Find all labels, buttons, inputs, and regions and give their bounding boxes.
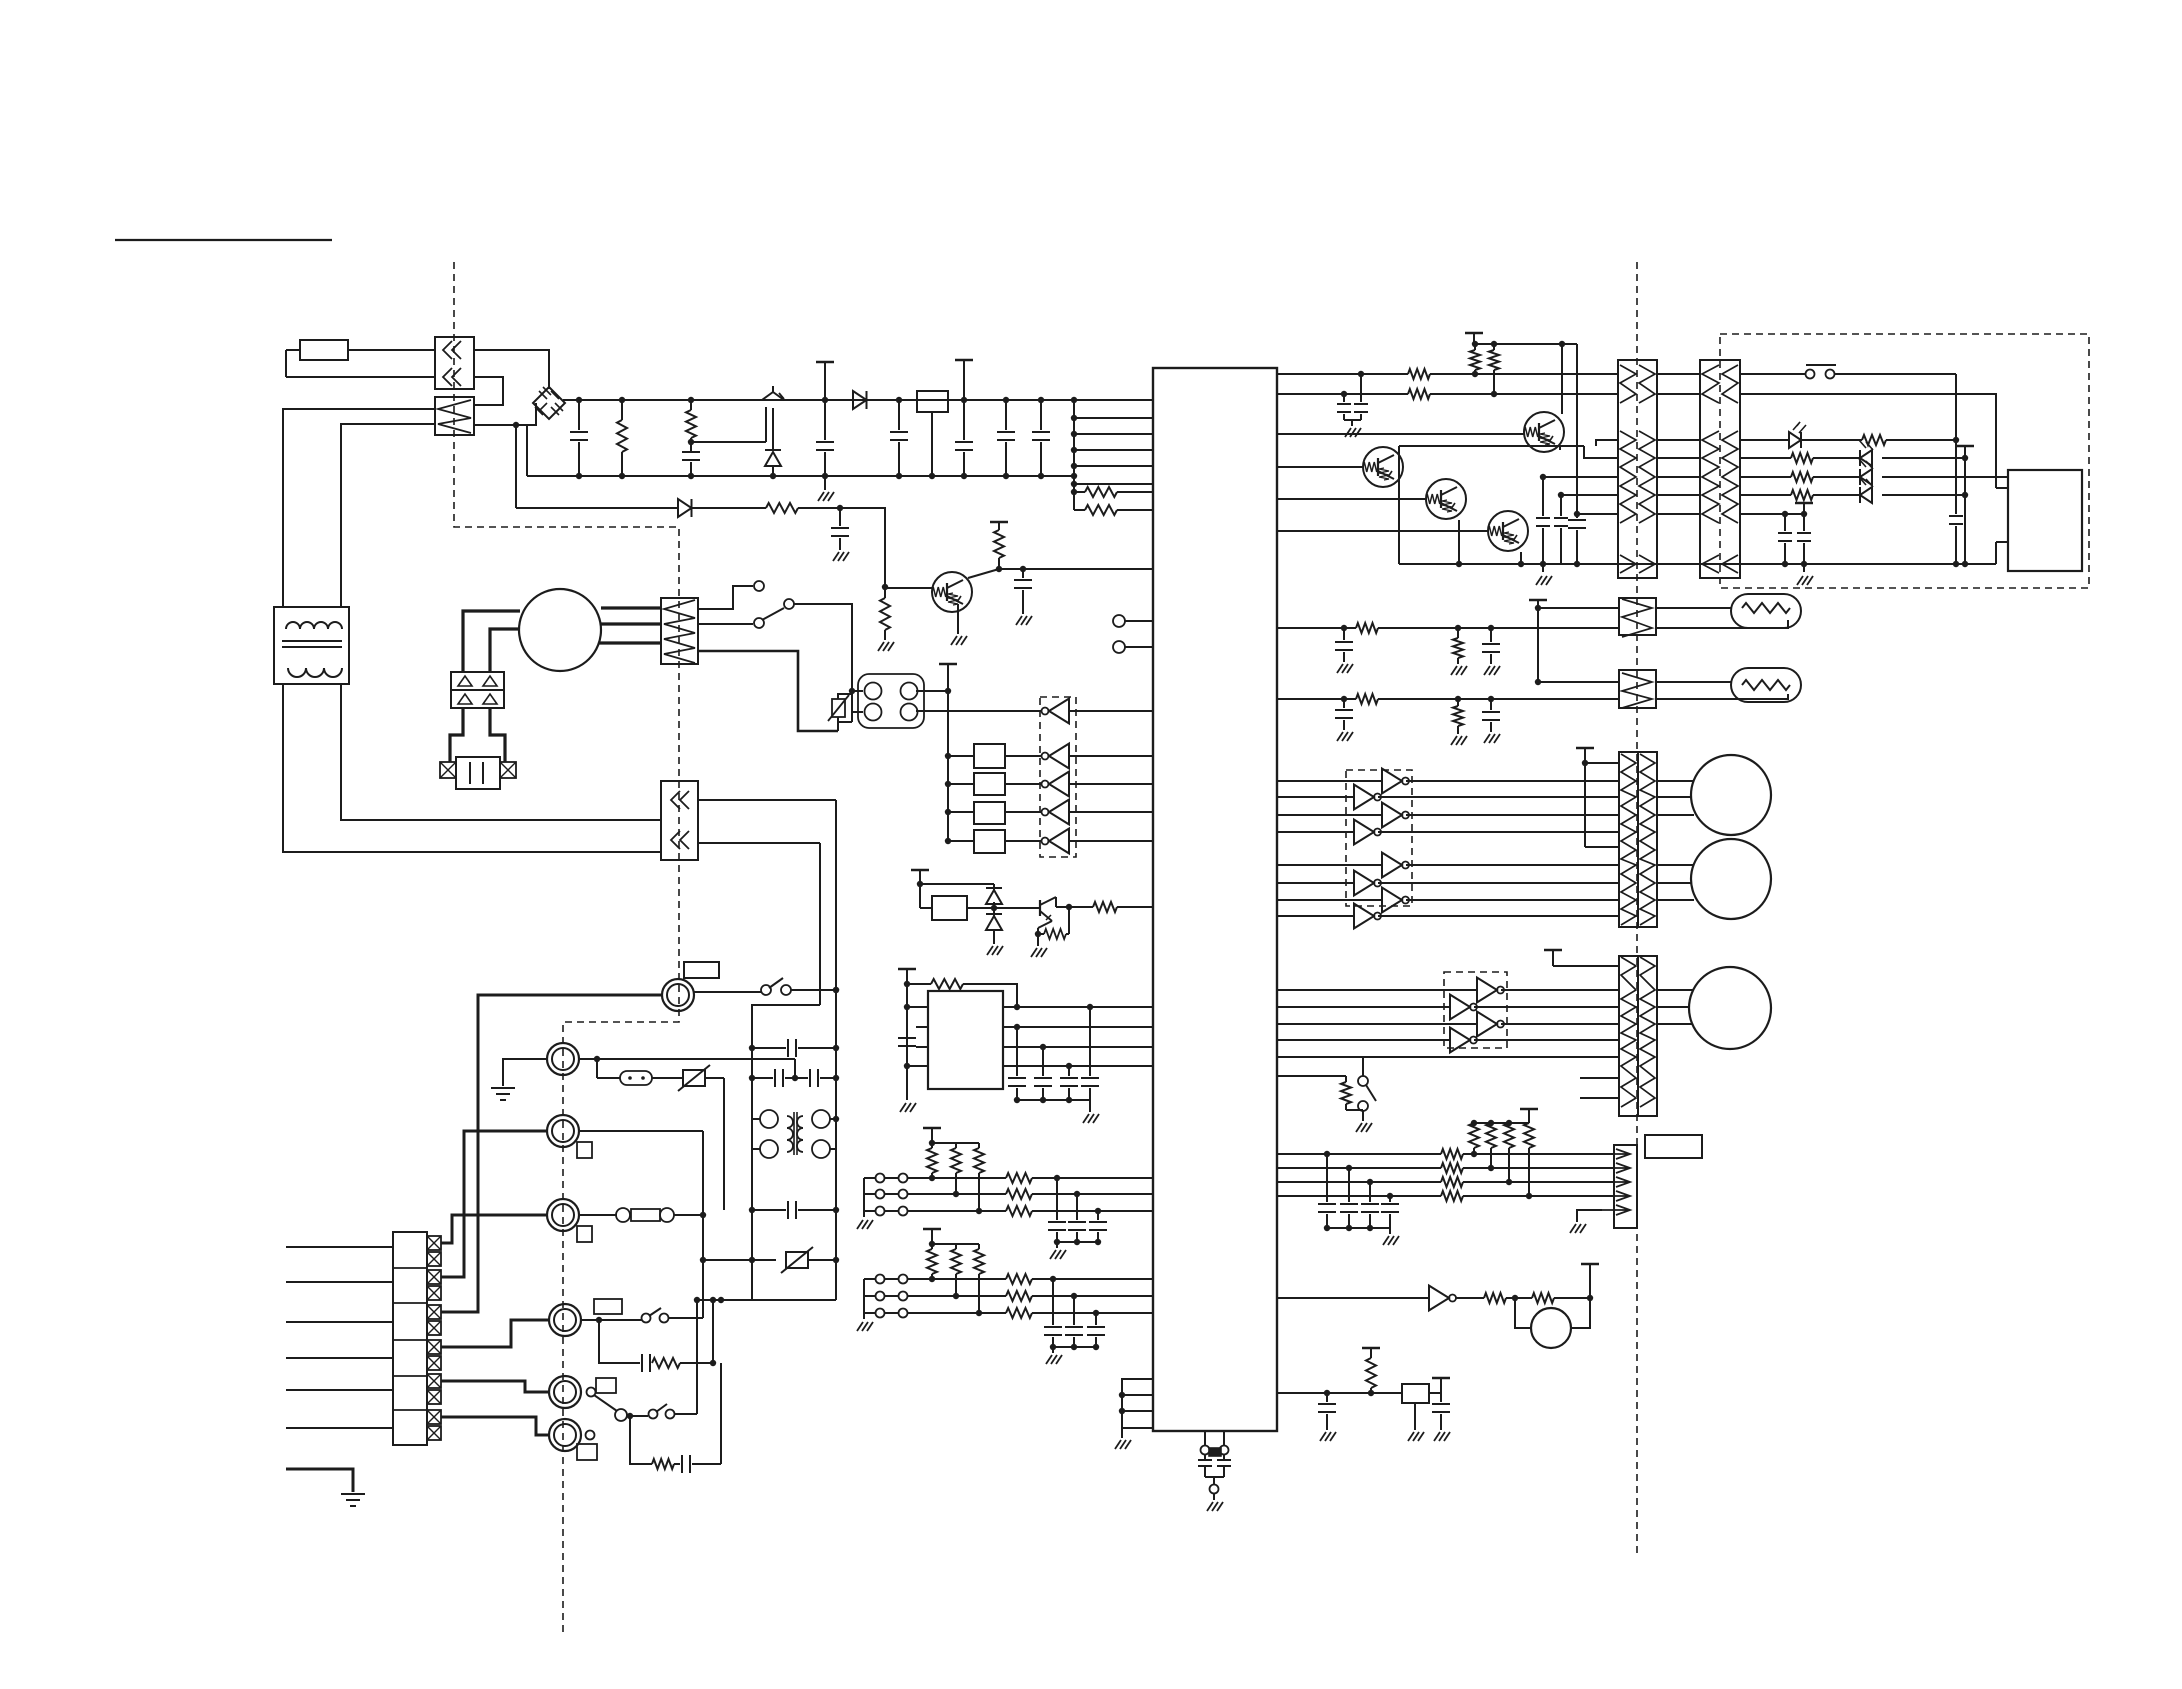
wire [341, 424, 435, 607]
capacitor C24 [1482, 628, 1500, 675]
wire [579, 1056, 795, 1062]
front panel dashed box [1720, 334, 2089, 588]
wire [1561, 494, 1618, 496]
wire [1014, 1097, 1090, 1103]
wire [579, 1130, 703, 1132]
wire stub [1580, 1077, 1619, 1079]
capacitor C25 [1335, 699, 1353, 741]
resistor R23 [1277, 1076, 1351, 1104]
wire [599, 641, 661, 644]
wire [450, 708, 463, 762]
wire [1618, 563, 1996, 565]
switch S3 [1358, 1076, 1376, 1111]
wire [696, 1300, 698, 1414]
connector CN4 [661, 598, 698, 664]
resistor R31 [1441, 1191, 1614, 1201]
connector pins J3b [1113, 641, 1153, 653]
resistor R20 [1451, 628, 1467, 675]
bridge rectifier D5 [451, 672, 504, 708]
transistor Q1 [1277, 412, 1564, 452]
wire [1570, 1210, 1602, 1233]
wire to IC pin [1071, 415, 1153, 421]
jack J7 [547, 1199, 592, 1242]
wire [1657, 1006, 1689, 1008]
LED D8 [1740, 422, 1862, 448]
connector CN5 [1618, 360, 1657, 578]
switch S4 [694, 978, 839, 995]
ground [1031, 934, 1047, 957]
inverter U5c [1277, 1012, 1619, 1037]
filter X1 [945, 744, 1005, 768]
wire [1277, 696, 1356, 702]
transistor Q6 [994, 897, 1069, 921]
resistor R34 [1362, 1348, 1380, 1393]
wire [601, 606, 661, 609]
diode D3 [853, 391, 867, 409]
wire [1657, 457, 1700, 459]
input lines [286, 1247, 393, 1428]
motor M2 [1691, 755, 1771, 835]
transistor Q4 [1277, 511, 1528, 551]
ground [1408, 1403, 1424, 1441]
wire [1559, 341, 1565, 414]
wire [1003, 1004, 1153, 1010]
wire [1277, 1390, 1402, 1396]
diode D6 [986, 884, 1002, 908]
inverter U4g [1277, 888, 1619, 913]
resistor R1 [617, 397, 627, 479]
wire [1346, 1104, 1372, 1132]
wire [1657, 439, 1700, 441]
capacitor C29 [1361, 1182, 1379, 1231]
varistor RV3 [828, 691, 863, 722]
switch S1 [698, 581, 794, 628]
wire [1035, 921, 1052, 937]
wire [792, 1059, 798, 1081]
resistor R2 [686, 397, 696, 448]
filter X3 [945, 802, 1005, 824]
connector CN3 [661, 781, 698, 860]
resistor R5 [692, 503, 843, 513]
resistor R8 [1038, 929, 1069, 939]
inverter U4h [1277, 904, 1619, 929]
capacitor C13 [1034, 1047, 1052, 1100]
wire [1398, 453, 1400, 564]
ground [1383, 1228, 1399, 1245]
filter X4 [945, 830, 1005, 853]
transistor Q5 [885, 572, 972, 612]
neon lamp NE1 [597, 1059, 652, 1085]
pass transistor Q7 [762, 386, 784, 400]
motor M1 [519, 589, 601, 671]
wire to IC pin [1071, 481, 1153, 487]
capacitor C8 [831, 508, 849, 561]
resistor R28 [1441, 1149, 1614, 1159]
resistor R33 [1506, 1293, 1593, 1303]
label box [1645, 1135, 1702, 1158]
resistor R11 [1470, 344, 1480, 377]
supply T [1581, 1264, 1599, 1298]
lamp LP2 [1656, 668, 1801, 702]
resistor R10 [907, 979, 1020, 1010]
wire [1003, 1024, 1153, 1030]
wire [700, 1131, 706, 1318]
resistor R15 [1862, 435, 1956, 445]
wire [833, 800, 839, 1300]
resistor R16 [1740, 453, 1860, 463]
wire stub [916, 1046, 928, 1048]
wire [1553, 965, 1619, 967]
wire [698, 651, 838, 731]
capacitor C22 [1797, 514, 1811, 567]
wire [1657, 882, 1691, 884]
connector CN10 [1619, 956, 1657, 1116]
wire [1560, 446, 1618, 458]
inverter U2c [1005, 772, 1153, 797]
wire [794, 604, 855, 694]
connector CN8 [1619, 670, 1656, 708]
wire [1535, 605, 1619, 611]
resistor R18 [1740, 490, 1860, 500]
capacitor C20 [1568, 512, 1586, 564]
capacitor C3 [816, 362, 834, 501]
servo IC3 [928, 991, 1003, 1089]
switch S6 [587, 1388, 634, 1422]
wire [1740, 513, 1804, 515]
wire [341, 684, 661, 820]
wire [698, 799, 836, 801]
wire [515, 425, 517, 508]
wire [1277, 371, 1408, 377]
ground [1797, 564, 1813, 585]
inverter bank box 2 [1444, 972, 1507, 1048]
capacitor C10 motor-start [440, 757, 516, 789]
diode D4 [516, 499, 692, 517]
supply T [1956, 446, 1974, 458]
ground [1344, 420, 1361, 437]
resistor R30 [1441, 1177, 1614, 1187]
power switch S2 [1740, 365, 1956, 379]
wire [474, 403, 536, 428]
wire [1003, 1044, 1153, 1050]
key matrix SW1-SW3 [857, 1128, 1153, 1259]
wire [441, 1417, 549, 1435]
wire [1657, 989, 1693, 991]
wire [1657, 899, 1694, 901]
capacitor C38 [752, 1201, 836, 1219]
inverter U5b [1277, 995, 1619, 1020]
wire [1399, 446, 1560, 453]
resistor R4 [1074, 505, 1153, 515]
switch S5 [581, 1308, 703, 1323]
wire [720, 1363, 722, 1464]
resistor R19 [1356, 623, 1619, 633]
reset IC4 [1402, 1384, 1429, 1403]
inverter U4f [1277, 871, 1619, 896]
wire [723, 1078, 725, 1210]
wire [1327, 1227, 1390, 1229]
capacitor C9 [1014, 566, 1032, 625]
inverter U2d [1005, 800, 1153, 825]
wire [749, 1005, 820, 1300]
resistor R7 [990, 522, 1008, 572]
selector switch bank SW7 [393, 1232, 441, 1445]
capacitor C5 [955, 360, 973, 479]
wire [1657, 476, 1700, 478]
wire [1657, 780, 1694, 782]
inverter U4a [1277, 769, 1619, 794]
wire stub [1996, 541, 2008, 543]
wire [1277, 1165, 1441, 1171]
capacitor C1 [570, 397, 588, 479]
transistor Q3 [1277, 479, 1466, 519]
wire [819, 843, 821, 1005]
wire [1535, 679, 1619, 685]
capacitor C14 [1060, 1066, 1078, 1100]
inverter U5a [1277, 978, 1619, 1003]
capacitor C16 [1337, 394, 1351, 420]
resistor R26 [1504, 1123, 1514, 1185]
ground lead [286, 1469, 365, 1506]
jack J6 [547, 1115, 592, 1158]
photocoupler PC1 [858, 674, 924, 728]
resistor R27 [1524, 1123, 1534, 1199]
wire [283, 684, 661, 852]
LED D11 [1859, 477, 1968, 503]
wire supply stub [911, 870, 929, 908]
ground [1083, 1100, 1099, 1123]
wire [698, 842, 820, 844]
resistor R24 [1469, 1123, 1479, 1157]
resistor R3 [1071, 487, 1153, 497]
capacitor C18 [1536, 474, 1550, 564]
connector CN1 [435, 337, 474, 389]
wire stub [916, 1026, 928, 1028]
inverter U5d [1277, 1028, 1619, 1053]
fuse F2 [579, 1208, 703, 1222]
capacitor C31 [1318, 1393, 1336, 1441]
wire [1520, 552, 1522, 564]
wire [286, 350, 435, 377]
inverter bank box [1346, 770, 1412, 906]
wire [916, 688, 951, 694]
inverter U2a [1042, 699, 1070, 724]
wire [601, 622, 661, 625]
jack J8 [549, 1299, 622, 1336]
wire [968, 569, 1153, 578]
jack J10 [549, 1419, 597, 1460]
capacitor C35 [752, 1039, 836, 1057]
wire stub [1580, 1097, 1619, 1099]
wire [916, 710, 1042, 712]
lamp LP1 [1656, 594, 1801, 628]
capacitor C33 [599, 1320, 650, 1372]
capacitor C28 [1340, 1168, 1358, 1231]
capacitor C15 [1081, 1007, 1099, 1100]
inverter U4d [1277, 820, 1619, 845]
wire [1277, 1193, 1441, 1199]
wire [1657, 513, 1700, 515]
regulator IC2 [917, 391, 948, 479]
crystal X6 [1198, 1431, 1231, 1511]
motor M4 [1689, 967, 1771, 1049]
wire [1277, 1056, 1363, 1058]
wire [441, 1320, 549, 1347]
capacitor C27 [1318, 1154, 1336, 1231]
wire [1277, 1151, 1441, 1157]
wire [1657, 393, 1700, 395]
wire [1277, 1179, 1441, 1185]
switch S7 [627, 1404, 697, 1419]
wire [712, 1300, 714, 1363]
wire [1277, 625, 1356, 631]
ground [1536, 564, 1552, 585]
wire [283, 409, 435, 607]
wire supply stub [898, 969, 916, 1100]
title rule [115, 239, 332, 241]
wire [441, 1215, 547, 1243]
wire [490, 629, 520, 672]
fuse F1 [286, 340, 348, 360]
board boundary dashed line right [1636, 262, 1638, 1556]
diode D7 [986, 908, 1003, 955]
ground [951, 604, 967, 645]
wire common rail [1399, 561, 1618, 567]
connector CN11 [1602, 1145, 1637, 1228]
jack J5 [547, 1043, 579, 1075]
inverter U4b [1277, 785, 1619, 810]
wire [1949, 374, 1963, 567]
motor M3 [1691, 839, 1771, 919]
wire [1962, 458, 1968, 567]
system control IC1 [1153, 368, 1277, 1431]
capacitor C2 [682, 448, 700, 479]
LED D10 [1859, 459, 2008, 485]
resistor R36 [630, 1416, 674, 1469]
wire [463, 611, 520, 672]
resistor R35 [652, 1358, 716, 1368]
wire [920, 883, 994, 885]
capacitor C7 [1032, 397, 1050, 479]
connector CN6 [1700, 360, 1740, 578]
wire [441, 1131, 547, 1277]
wire supply stub [939, 664, 957, 841]
wire [441, 1381, 549, 1392]
resistor R29 [1441, 1163, 1614, 1173]
capacitor C34 [674, 1455, 721, 1473]
capacitor C37 [810, 1069, 836, 1087]
capacitor C19 [1554, 492, 1568, 564]
capacitor C23 [1335, 628, 1353, 673]
bridge rectifier D1 [533, 387, 565, 419]
wire [1596, 440, 1618, 446]
wire [1657, 814, 1694, 816]
supply T [1544, 950, 1562, 966]
wire supply rail [1465, 333, 1577, 347]
wire [474, 350, 549, 389]
wire [840, 508, 888, 590]
resistor R14 [1408, 389, 1618, 399]
wire supply bus [1071, 397, 1077, 510]
wire [1657, 1023, 1693, 1025]
capacitor C26 [1482, 699, 1500, 743]
resistor R6 [878, 587, 894, 651]
resistor R22 [1451, 699, 1467, 745]
pin header J2 [1115, 1379, 1153, 1449]
wire [1657, 864, 1694, 866]
oscillator box X5 [920, 896, 967, 920]
wire to IC pin [1074, 399, 1153, 401]
resistor R13 [1408, 369, 1618, 379]
wire [1363, 1057, 1619, 1076]
wire [1003, 1063, 1153, 1069]
wire to IC pin [1071, 463, 1153, 469]
wire [1585, 762, 1619, 764]
inverter group box [1040, 697, 1076, 857]
wire [907, 1006, 928, 1008]
resistor R21 [1356, 694, 1619, 704]
inverter U2e [1005, 829, 1153, 854]
supply T [1520, 1109, 1538, 1123]
wire V+ rail [563, 399, 1074, 401]
wire [967, 905, 997, 911]
board boundary dashed line left [454, 262, 679, 1632]
supply T [1782, 503, 1813, 517]
filter X2 [945, 773, 1005, 795]
jack J4 [662, 962, 719, 1011]
capacitor C17 [1354, 374, 1368, 420]
line transformer T2 [752, 1110, 836, 1158]
wire [1429, 1392, 1441, 1394]
capacitor C32 [1432, 1378, 1450, 1441]
connector CN2 [435, 397, 474, 435]
capacitor C11 [898, 1038, 916, 1046]
wire [1471, 1120, 1529, 1126]
connector pins J3 [1113, 615, 1153, 627]
jack J9 [549, 1376, 616, 1408]
wire [490, 708, 505, 762]
zener diode D2 [765, 408, 781, 479]
wire [1069, 710, 1153, 712]
resistor R12 [1489, 344, 1499, 397]
wire [1740, 394, 1996, 488]
connector CN7 [1619, 598, 1656, 637]
wire stub [1996, 487, 2008, 489]
wire [441, 995, 662, 1312]
supply T [1529, 600, 1547, 682]
wire to IC pin [1071, 447, 1153, 453]
speaker BZ1 [1515, 1298, 1590, 1348]
wire [491, 1059, 547, 1100]
wire [1574, 344, 1580, 517]
resistor R9 [1056, 897, 1153, 934]
varistor RV2 [703, 1247, 836, 1273]
supply T [1576, 748, 1594, 847]
wire [1657, 494, 1700, 496]
transformer T1 [274, 607, 349, 684]
resistor R17 [1740, 472, 1860, 482]
transistor Q2 [1277, 447, 1403, 487]
wire [1585, 846, 1619, 848]
connector CN9 [1619, 752, 1657, 927]
inverter U4e [1277, 853, 1619, 878]
resistor R25 [1486, 1123, 1496, 1171]
wire to IC pin [1071, 431, 1153, 437]
wire [1277, 1297, 1429, 1299]
wire [688, 407, 766, 445]
varistor RV1 [652, 1065, 724, 1091]
inverter U6 [1429, 1286, 1456, 1311]
